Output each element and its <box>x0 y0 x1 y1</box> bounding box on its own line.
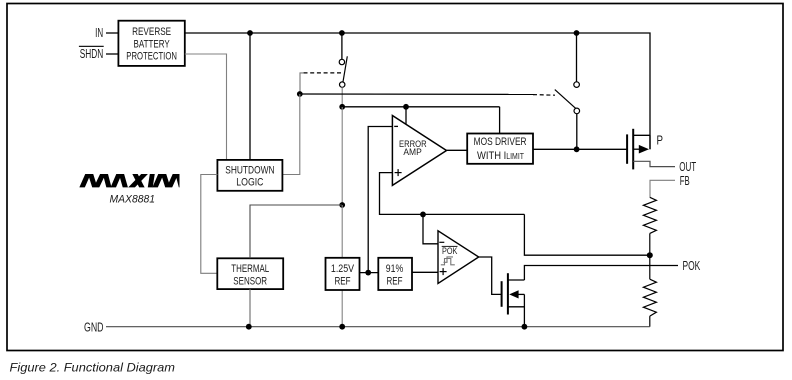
svg-text:MAX8881: MAX8881 <box>110 193 156 205</box>
svg-text:SHUTDOWN: SHUTDOWN <box>225 164 274 176</box>
wire bias down to MOS driver <box>499 107 501 134</box>
svg-text:REF: REF <box>334 276 351 288</box>
node junction NMOS source GND <box>522 324 528 330</box>
node junction 1.25V REF GND <box>339 324 345 330</box>
wire IN rail down to SHUTDOWN LOGIC <box>249 33 251 160</box>
resistor R2 lower divider <box>643 279 656 316</box>
svg-text:LOGIC: LOGIC <box>236 177 263 189</box>
wire THERMAL SENSOR bottom to GND <box>249 289 251 327</box>
pin plus of POK comparator <box>440 271 447 273</box>
wire NMOS source and body to GND <box>523 294 525 326</box>
transistor Q1 P-channel pass FET <box>626 134 628 163</box>
block U3 THERMAL SENSOR <box>217 258 283 289</box>
wire FB pin to divider top <box>650 180 675 197</box>
svg-text:P: P <box>657 134 664 148</box>
svg-text:AMP: AMP <box>403 147 421 157</box>
node junction thermal sensor GND <box>246 324 252 330</box>
wire supply net x=342 down segments <box>341 107 343 205</box>
wire error amp minus input from reference <box>368 127 392 273</box>
block U5 MOS DRIVER WITH ILIMIT <box>467 134 533 164</box>
wire PMOS drain to OUT <box>633 161 675 166</box>
wire dashed control of S1 from shutdown logic <box>303 72 341 74</box>
wire error amp output <box>447 149 467 151</box>
svg-text:91%: 91% <box>386 263 404 275</box>
svg-text:REVERSE: REVERSE <box>132 26 171 38</box>
wire MOS driver output to PMOS gate <box>533 148 628 150</box>
wire S2 bottom to gate line <box>576 114 578 150</box>
wire NMOS drain up to POK line <box>524 266 678 281</box>
node FB tap junction <box>647 252 653 258</box>
svg-text:GND: GND <box>84 320 104 334</box>
pin minus of POK comparator <box>439 241 444 243</box>
pin minus of error amp <box>394 125 398 127</box>
wire error amp plus input from FB tap <box>380 173 525 215</box>
node junction control at x=300 <box>297 91 303 97</box>
wire THERMAL SENSOR top to supply net <box>250 205 342 258</box>
wire 91% REF to POK plus input <box>412 271 438 273</box>
wire POK minus input from FB tap net <box>423 214 438 243</box>
svg-text:THERMAL: THERMAL <box>231 263 269 275</box>
wire SHDN pin <box>106 53 119 55</box>
svg-text:OUT: OUT <box>679 160 696 174</box>
switch S2 from top rail <box>576 33 578 82</box>
svg-text:1.25V: 1.25V <box>331 263 355 275</box>
svg-text:POK: POK <box>683 259 701 273</box>
MAXIM logo <box>81 171 183 192</box>
wire REVERSE box to SHUTDOWN LOGIC <box>185 54 227 160</box>
svg-text:WITH ILIMIT: WITH ILIMIT <box>477 150 524 162</box>
wire control down to SHUTDOWN LOGIC right side <box>282 94 300 175</box>
wire switch S1 bottom to internal supply net <box>341 87 343 107</box>
svg-text:POK: POK <box>442 246 457 256</box>
svg-text:FB: FB <box>680 174 690 188</box>
op-amp U4 ERROR AMP <box>392 116 446 186</box>
comparator U6 POK <box>438 231 479 284</box>
block U1 REVERSE BATTERY PROTECTION <box>118 21 184 66</box>
wire 1.25V REF bottom to GND <box>341 290 343 327</box>
transistor Q2 N-channel open drain POK <box>501 281 503 307</box>
wire POK comparator output to NMOS gate <box>479 257 502 294</box>
block U7 1.25V REF <box>326 258 360 290</box>
svg-text:IN: IN <box>95 26 103 40</box>
svg-text:MOS DRIVER: MOS DRIVER <box>474 136 527 148</box>
svg-text:Figure 2. Functional Diagram: Figure 2. Functional Diagram <box>10 360 176 374</box>
wire internal bias rail y=107 <box>342 106 499 108</box>
wire R1 to tap <box>649 233 651 255</box>
wire bias down to error amp <box>405 107 407 125</box>
wire IN pin <box>106 32 119 34</box>
wire R2 bottom to GND rail <box>649 316 651 327</box>
svg-text:BATTERY: BATTERY <box>134 38 171 50</box>
wire 1.25V REF to 91% REF <box>360 272 379 274</box>
svg-text:PROTECTION: PROTECTION <box>126 51 177 63</box>
hysteresis symbol <box>441 259 455 265</box>
wire FB tap down to divider <box>524 214 649 255</box>
wire SHUTDOWN LOGIC to THERMAL SENSOR <box>201 175 218 274</box>
wire shutdown control line y=94 <box>300 93 533 95</box>
switch S1 contacts and blade <box>339 59 344 64</box>
resistor R1 upper divider <box>643 197 656 233</box>
switch S1 vertical from IN rail <box>341 33 343 59</box>
pin plus of error amp <box>395 172 402 174</box>
wire top supply rail y=33 <box>185 33 650 149</box>
block U8 91% REF <box>378 258 412 290</box>
svg-text:SENSOR: SENSOR <box>233 275 267 287</box>
wire GND rail <box>106 326 650 328</box>
svg-text:SHDN: SHDN <box>80 47 104 61</box>
node junction on IN rail at x=250 <box>247 30 253 36</box>
wire tap to R2 <box>649 255 651 279</box>
node junction reference <box>365 270 371 276</box>
block U2 SHUTDOWN LOGIC <box>217 160 282 191</box>
svg-text:REF: REF <box>387 276 403 288</box>
